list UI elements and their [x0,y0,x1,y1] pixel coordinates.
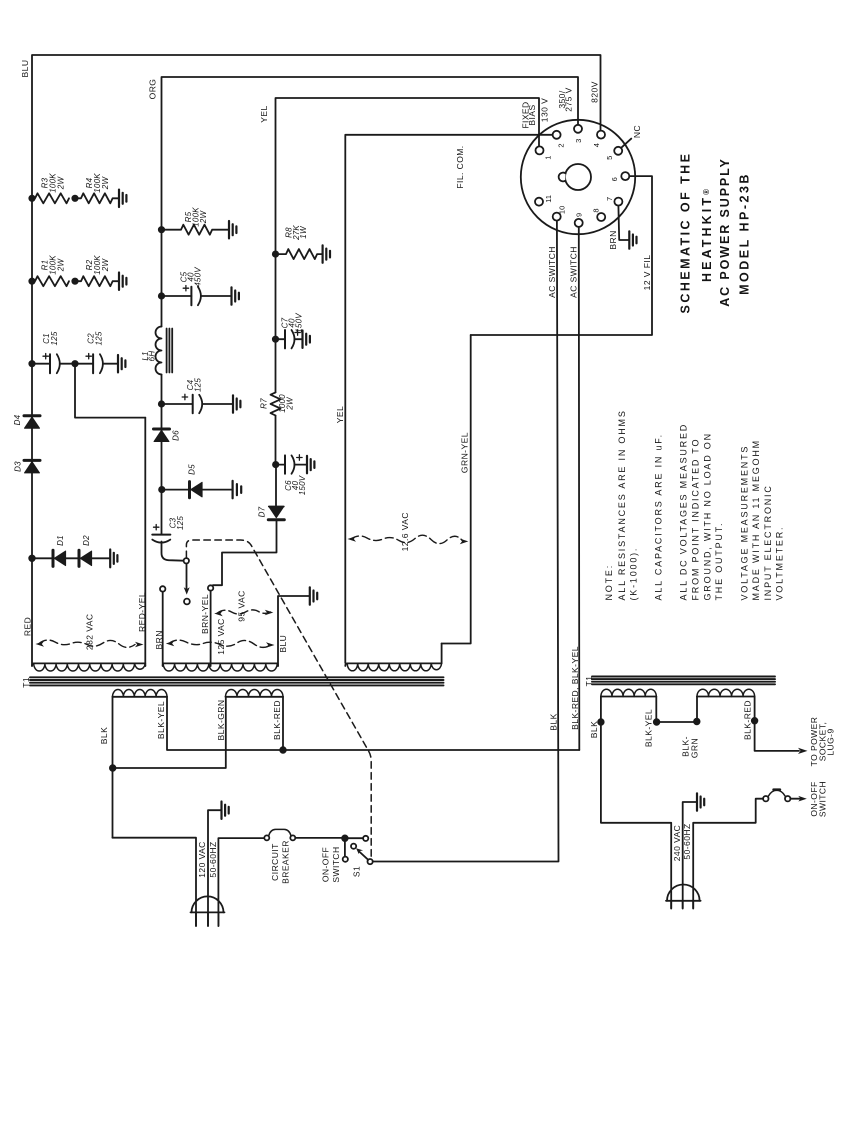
selector lower contact [184,599,190,605]
svg-text:INPUT ELECTRONIC: INPUT ELECTRONIC [763,484,773,600]
svg-text:ALL CAPACITORS ARE IN uF.: ALL CAPACITORS ARE IN uF. [653,433,663,600]
socket pin 4 [592,131,605,148]
node C4 junction on ORG column [159,401,164,406]
svg-text:240 VAC: 240 VAC [672,825,682,862]
svg-text:AC POWER SUPPLY: AC POWER SUPPLY [718,157,732,307]
measure arrow 12.6 VAC [348,512,469,551]
svg-text:S1: S1 [352,866,362,877]
svg-text:D5: D5 [187,464,196,475]
svg-text:5: 5 [605,156,614,160]
svg-text:282 VAC: 282 VAC [84,614,94,651]
svg-text:BRN-YEL: BRN-YEL [200,594,210,634]
ground at R4 [119,190,126,207]
svg-text:BLU: BLU [278,635,288,653]
winding T1 secondary bias (BRN / BRN-YEL / BLU) [163,663,278,671]
svg-text:VOLTMETER.: VOLTMETER. [775,526,785,601]
svg-text:12 V FIL: 12 V FIL [642,255,652,291]
svg-text:150V: 150V [298,475,307,495]
svg-text:BRN: BRN [154,630,164,649]
node R1/R2 junction [72,279,77,284]
svg-text:7: 7 [605,197,614,201]
svg-text:(K-1000).: (K-1000). [629,547,639,601]
winding T1 primary 2 (BLK-GRN / BLK-RED) [216,690,283,741]
wire D7 to BRN-YEL selector contact [213,520,277,585]
winding 240V primary B (BLK-GRN / BLK-RED) [680,689,754,758]
node R3/R4 junction [72,196,77,201]
winding T1 primary 1 (BLK / BLK-YEL) [99,690,167,745]
wire BLK-RED lead [282,697,284,750]
svg-text:BLK: BLK [549,713,559,730]
svg-text:T1: T1 [584,676,594,687]
diode D3 [14,460,41,473]
ground at pin 7 [629,231,636,248]
svg-text:2W: 2W [101,176,110,191]
svg-text:BLK-RED: BLK-RED [272,700,282,740]
svg-text:GRN: GRN [689,738,699,758]
svg-text:130 V: 130 V [539,98,549,122]
ground at R5 [229,221,236,238]
socket pin 2 [553,131,566,148]
node C7 junction [273,337,278,342]
ground at C5 [232,287,239,304]
svg-text:GROUND, WITH NO LOAD ON: GROUND, WITH NO LOAD ON [702,432,712,600]
svg-text:MADE WITH AN 11 MEGOHM: MADE WITH AN 11 MEGOHM [751,439,761,600]
node C1 junction on BLU column [29,361,34,366]
diode D5 [162,464,232,498]
svg-text:D7: D7 [258,506,267,517]
wire GRN-YEL heater return [442,335,471,644]
svg-text:BRN: BRN [608,230,618,249]
svg-text:CIRCUIT: CIRCUIT [270,843,280,881]
measure arrow 125 VAC [166,618,275,655]
wire BLK lead down [112,697,114,838]
node R3 junction on BLU column [29,196,34,201]
socket outer circle [521,120,635,234]
resistor R7 1000 2W [260,392,295,415]
svg-text:NOTE:: NOTE: [604,564,614,601]
wire pin 7 to ground (BRN) [608,206,629,250]
wire BLK-GRN lead to BLK junction [113,697,226,768]
svg-text:FROM POINT INDICATED TO: FROM POINT INDICATED TO [690,438,700,601]
svg-text:120 VAC: 120 VAC [197,841,207,878]
note text block [604,409,785,600]
svg-text:2: 2 [557,144,566,148]
node BLK-RED junction [280,747,286,753]
svg-text:BLK-RED, BLK-YEL: BLK-RED, BLK-YEL [570,646,580,730]
svg-text:8: 8 [592,208,601,212]
svg-text:LUG-9: LUG-9 [825,728,835,755]
svg-text:1: 1 [544,156,553,160]
wire pin 9 AC switch line down [569,227,580,750]
diode D4 [13,414,40,428]
labels 350/275 V at pin 3 [557,87,574,111]
svg-text:NC: NC [632,125,642,138]
svg-text:AC SWITCH: AC SWITCH [569,246,579,298]
capacitor C6 40 150V [276,455,307,495]
svg-text:D2: D2 [82,535,91,546]
svg-text:4: 4 [592,143,601,147]
socket pin 10 [553,206,567,221]
svg-text:50-60HZ: 50-60HZ [208,841,218,877]
svg-text:2W: 2W [285,396,294,411]
node 240V BLK-RED dot [752,718,758,724]
svg-text:11: 11 [544,195,553,203]
wire FIL. COM.: from 12.6V winding left lead up and across to pin 2 [335,135,553,663]
resistor R3 100K 2W [35,173,69,204]
ground at C7 [303,331,310,348]
socket center keyway [559,164,591,190]
capacitor C3 125 [152,516,185,543]
winding 240V primary A (BLK / BLK-YEL) [589,689,656,747]
wire C2 column to RED-YEL transformer lead [75,364,145,418]
plug 240 VAC 50-60 HZ [666,823,701,908]
svg-text:2W: 2W [57,258,66,273]
svg-text:125: 125 [194,378,203,392]
ground at BLU lead [310,587,317,604]
wire C3 to selector contact [162,542,184,561]
switch 240V on-off [763,781,827,817]
capacitor C7 40 150V [276,313,304,349]
socket pin 6 [610,172,629,181]
node D5 junction on ORG column [159,487,164,492]
node R1 junction on BLU column [29,279,34,284]
node C1/C2 junction [72,361,77,366]
svg-text:GRN-YEL: GRN-YEL [459,432,469,473]
svg-text:R7: R7 [260,398,269,409]
wire BLU secondary lead grounded [278,596,310,666]
wire BLK-YEL lead to pin-9 line [167,697,579,750]
svg-text:SWITCH: SWITCH [331,846,341,882]
svg-text:D1: D1 [56,535,65,546]
svg-text:BLK-GRN: BLK-GRN [216,700,226,741]
node 240V BLK lead dot [598,719,604,725]
svg-text:2W: 2W [101,258,110,273]
wire pin 6 heater loop (12 V FIL) [471,176,652,335]
svg-text:FIL. COM.: FIL. COM. [455,145,465,188]
wire YEL column C6 to D7 [275,465,277,507]
svg-text:9: 9 [574,213,583,217]
node C5 junction on ORG column [159,293,164,298]
ground at C4 [233,395,240,412]
svg-text:BLK-YEL: BLK-YEL [156,701,166,739]
diode D7 [258,506,285,519]
wire RED-YEL lead down to winding [137,418,147,666]
svg-text:125: 125 [95,331,104,345]
wire 120V line cord left conductor [113,838,197,926]
resistor R2 100K 2W [75,255,119,286]
wire 240V BLK lead to cord [601,697,671,909]
svg-text:95 VAC: 95 VAC [237,590,247,621]
svg-text:RED-YEL: RED-YEL [137,592,147,632]
selector arrow to lower contact [184,564,190,595]
svg-text:AC SWITCH: AC SWITCH [547,246,557,298]
wire BLU bus: left HV column up and across top to socket pin 4 [20,55,601,666]
socket pin 7 [605,197,623,206]
wire BRN lead with open terminal [154,586,165,666]
svg-text:1W: 1W [299,225,308,239]
measure arrow 282 VAC [36,614,144,651]
wire pin 10 AC switch line down to S1 [373,221,559,862]
node D1/D2 branch junction [29,556,35,562]
diode D6 [154,429,181,442]
wire YEL column R8 to C7 [275,254,277,339]
svg-text:10: 10 [558,206,567,214]
svg-text:12.6 VAC: 12.6 VAC [400,512,410,551]
wire YEL column C7 to R7 [275,339,277,392]
svg-text:820V: 820V [589,81,599,103]
ground at R2 [119,273,126,290]
svg-text:BLK: BLK [589,721,599,738]
resistor R1 100K 2W [35,255,69,286]
svg-text:125: 125 [176,516,185,530]
wire 240V BLK-RED to power socket lug 9 [755,697,836,767]
ground at D1/D2 [110,550,117,568]
node R5 junction on ORG column [159,227,164,232]
ground at R8 [323,245,330,262]
socket pin 11 [535,195,553,206]
wire 240V cord ground conductor [683,802,697,909]
selector BRN-YEL contact [208,585,213,590]
svg-text:450V: 450V [194,267,203,287]
node C6 junction [273,462,278,467]
capacitor C1 125 [32,331,75,373]
svg-text:BIAS: BIAS [527,104,537,125]
socket pin 8 [592,208,606,221]
svg-text:125: 125 [50,331,59,345]
measure arrow 95 VAC [214,590,273,621]
winding T1 secondary 12.6V filament (YEL / GRN-YEL) [345,644,441,671]
wire YEL column R7 to C6 [275,416,277,465]
wire ORG column between L1 and C3 [161,375,163,535]
resistor R4 100K 2W [75,173,119,204]
capacitor C5 40 450V [162,267,232,305]
wire 240V series tie BLK-YEL to BLK-GRN [656,697,697,723]
selector upper contact [184,558,189,563]
labels FIXED BIAS 130V at pin 2 [521,98,550,129]
socket pin 3 [574,125,583,143]
svg-text:SCHEMATIC OF THE: SCHEMATIC OF THE [679,152,693,314]
ground at 240V cord [697,793,704,810]
wire YEL bus: output column up and across, down to pins 1-2 junction [259,98,539,254]
T1 240V core laminations [584,676,775,687]
svg-text:MODEL HP-23B: MODEL HP-23B [738,172,752,295]
node BLK junction [110,765,116,771]
inductor L1 6H choke [141,327,172,375]
resistor R5 100K 2W [162,207,229,235]
svg-text:ORG: ORG [148,79,158,100]
wire 120V cord hot conductor to breaker [218,838,264,926]
svg-text:6H: 6H [147,351,156,362]
socket pin 1 [536,146,553,159]
svg-text:6: 6 [610,177,619,181]
node 240V BLK-GRN dot [694,719,700,725]
dashed selector linkage line [186,540,371,857]
winding T1 secondary HV (RED / RED-YEL) [32,663,145,671]
ground at C2 [118,355,125,372]
label NC at pin 5 [622,125,642,147]
svg-text:YEL: YEL [259,105,269,122]
svg-text:BLK-YEL: BLK-YEL [644,709,654,747]
plug 120 VAC 50-60 HZ [191,841,225,926]
svg-text:THE OUTPUT.: THE OUTPUT. [714,522,724,601]
capacitor C2 125 [75,331,118,373]
svg-text:BREAKER: BREAKER [280,840,290,884]
ground at 120V cord [222,802,229,819]
svg-text:ALL RESISTANCES ARE IN OHMS: ALL RESISTANCES ARE IN OHMS [617,409,627,600]
svg-text:VOLTAGE MEASUREMENTS: VOLTAGE MEASUREMENTS [739,445,749,601]
node 240V BLK-YEL dot [654,719,660,725]
wire 120V cord ground conductor [208,810,221,926]
ground at D5 [233,481,242,498]
T1 core laminations [21,677,444,688]
socket pin 5 [605,147,622,160]
wire breaker to S1 [295,837,345,839]
svg-text:3: 3 [574,139,583,143]
svg-text:50-60HZ: 50-60HZ [682,823,692,859]
svg-text:ALL DC VOLTAGES MEASURED: ALL DC VOLTAGES MEASURED [679,423,689,601]
svg-text:SWITCH: SWITCH [817,781,827,817]
svg-text:275 V: 275 V [564,87,574,111]
resistor R8 27K 1W [276,225,323,259]
svg-text:ON-OFF: ON-OFF [321,847,331,882]
svg-text:D6: D6 [172,430,181,441]
svg-text:BLU: BLU [20,60,30,78]
ground at C6 [307,456,314,473]
svg-text:YEL: YEL [335,406,345,423]
diode D2 [66,535,110,567]
svg-text:2W: 2W [199,210,208,225]
label BRN-YEL on tap lead [200,591,210,666]
svg-text:HEATHKIT®: HEATHKIT® [700,189,714,282]
circuit breaker [264,829,295,883]
node R8 junction on YEL column [273,251,278,256]
capacitor C4 125 [162,378,233,414]
title SCHEMATIC OF THE HEATHKIT AC POWER SUPPLY MODEL HP-23B [679,152,752,314]
svg-text:D4: D4 [13,414,22,425]
svg-text:2W: 2W [57,176,66,191]
socket pin 9 [574,213,583,227]
switch S1 [321,835,373,882]
svg-text:BLK: BLK [99,727,109,744]
diode D1 [32,535,66,566]
svg-text:D3: D3 [14,461,23,472]
wire 240V cord hot conductor to switch [693,799,763,909]
svg-text:RED: RED [23,617,33,636]
wire ORG bus: choke column up and across to socket pin 3 [148,77,579,327]
svg-text:125 VAC: 125 VAC [216,618,226,655]
svg-text:T1: T1 [21,677,31,688]
